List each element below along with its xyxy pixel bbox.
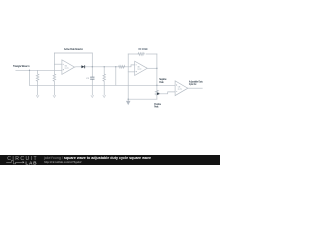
svg-text:Peak: Peak (159, 80, 164, 84)
svg-text:R4 100kΩ: R4 100kΩ (139, 48, 148, 51)
wire: OA2 inverting net vertical (127, 54, 129, 99)
wire: long horizontal line to OA3 + input (30, 84, 176, 86)
wire: OA3 output (188, 87, 203, 89)
op-amp input polarity marks (63, 64, 177, 92)
op-amp OA3 (175, 81, 188, 96)
wire: pot bottom line to ground junction (128, 98, 157, 100)
wire: OA1 output to diode (75, 66, 82, 68)
svg-text:Cycle Out: Cycle Out (189, 82, 196, 86)
ground (below C1) (91, 95, 94, 97)
op-amp OA2 (135, 61, 148, 75)
node dots (29, 66, 158, 100)
wire: pot wiper to OA3 - input (159, 92, 175, 94)
ground (pot bottom net) (127, 100, 130, 104)
CircuitLab logo: waveform (6, 161, 22, 164)
ground (below R5) (103, 95, 106, 97)
wire: R4 feedback left lead (128, 53, 138, 55)
svg-text:op-amp: op-amp (178, 89, 182, 91)
potentiometer P1 body (155, 90, 158, 99)
svg-text:LAB: LAB (25, 160, 37, 165)
resistor R4 (138, 53, 144, 56)
wire: main triangle input wire (16, 69, 62, 71)
wire: OA2 output (147, 67, 157, 69)
wire: node wire after diode (85, 65, 135, 67)
potentiometer wiper arrow (157, 93, 159, 95)
diode D1 (81, 65, 85, 68)
ground (below R1) (36, 95, 39, 97)
wire: R4 feedback right lead (146, 53, 157, 55)
footer bar (0, 155, 220, 165)
wire: feedback drop to output node (91, 53, 93, 67)
wire: OA2 bottom input stub (128, 71, 135, 73)
svg-text:Triangle Wave In: Triangle Wave In (13, 64, 30, 68)
svg-text:op-amp: op-amp (65, 67, 69, 69)
wire: node drop to long line (115, 67, 117, 86)
svg-text:Peak: Peak (154, 105, 159, 109)
svg-text:Active Peak Detector: Active Peak Detector (64, 47, 83, 51)
op-amp OA1 (62, 60, 75, 75)
ground (below R2) (53, 95, 56, 97)
wire: negative peak vertical (156, 54, 158, 90)
capacitor C1 (91, 67, 93, 95)
resistor R2 (53, 53, 56, 95)
wire: branch down from input node to long bottom line (29, 70, 31, 85)
resistor R5 (103, 67, 106, 95)
svg-text:op-amp: op-amp (137, 69, 141, 71)
svg-text:http://circuitlab.com/c/74gub2: http://circuitlab.com/c/74gub2 (44, 160, 82, 164)
resistor R3 (119, 66, 125, 69)
resistor R1 (36, 70, 39, 95)
wire: OA1 feedback top (54, 52, 92, 54)
wire: OA1 inverting input stub (54, 63, 62, 65)
